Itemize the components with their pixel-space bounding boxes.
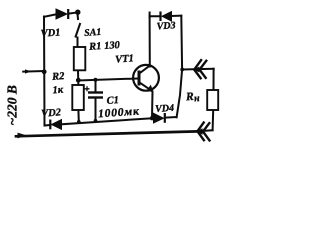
wire R1 bottom lead [77, 70, 79, 79]
svg-text:SA1: SA1 [84, 27, 102, 39]
wire base horizontal [78, 79, 137, 81]
wire lower output short [203, 129, 213, 132]
wire Rn top lead [213, 69, 215, 90]
wire internal bottom rail right (junction to VD4) [152, 117, 154, 119]
diode VD4 [154, 113, 165, 123]
resistor R1 [74, 47, 86, 70]
transistor VT1 [133, 65, 159, 92]
wire upper input arrow shaft [23, 70, 44, 73]
wire right vertical (VD3 right down to VD4 corner) [177, 16, 183, 118]
svg-text:1000мк: 1000мк [98, 105, 141, 120]
resistor Rn [207, 90, 218, 110]
lower output arrowhead [196, 128, 202, 134]
wire emitter vertical [151, 92, 154, 119]
resistor R2 [72, 85, 84, 110]
diode VD3 [161, 12, 172, 22]
lower output connector chevrons [197, 122, 210, 142]
svg-text:Rн: Rн [185, 90, 201, 105]
wire internal bottom rail left (corner to VD2) [45, 124, 51, 127]
junction node A (base/R1/R2) [76, 78, 81, 83]
upper input arrow [25, 69, 32, 73]
junction node C1 bottom [94, 119, 98, 123]
diode VD1 [56, 9, 68, 19]
svg-text:R1: R1 [88, 41, 102, 53]
junction node R2 bottom [77, 120, 81, 124]
wire long bottom line [16, 131, 197, 136]
upper output connector chevrons [194, 59, 207, 79]
svg-text:VD1: VD1 [40, 27, 61, 39]
wire top-right rail left part [150, 13, 160, 17]
svg-text:C1: C1 [106, 95, 119, 107]
wire collector vertical [149, 16, 151, 66]
svg-text:VT1: VT1 [115, 53, 134, 65]
wire switch stem [77, 14, 80, 19]
wire left vertical rail [43, 17, 46, 126]
svg-text:R2: R2 [51, 71, 66, 83]
wire C1 top lead [95, 80, 97, 92]
diode VD2 [50, 120, 61, 130]
switch SA1 [75, 10, 80, 38]
svg-text:1к: 1к [52, 85, 64, 97]
capacitor C1 [85, 86, 104, 97]
wire R1 top lead [77, 38, 79, 48]
junction node upper output tap [180, 68, 184, 72]
svg-text:~220 В: ~220 В [5, 85, 20, 125]
junction node emitter-rail [150, 116, 154, 120]
junction node input-rail [42, 69, 47, 74]
svg-text:130: 130 [104, 40, 121, 52]
wire top-right rail right part [172, 15, 182, 17]
junction node C1 top [93, 78, 97, 82]
wire VD1 to switch dot [70, 12, 76, 15]
wire internal bottom rail mid (VD2 to emitter junction) [62, 118, 152, 124]
lower input arrow [18, 133, 27, 139]
wire C1 bottom lead [95, 99, 97, 121]
upper output arrowhead [193, 67, 199, 73]
wire VD4 to right corner [166, 116, 177, 119]
wire upper output [182, 68, 214, 71]
wire top-left rail [44, 14, 56, 16]
wire R2 bottom lead [77, 110, 79, 122]
svg-text:VD2: VD2 [41, 107, 62, 119]
wire R2 top lead [77, 81, 79, 85]
svg-text:VD3: VD3 [156, 20, 176, 32]
wire Rn bottom lead [212, 110, 215, 130]
svg-text:VD4: VD4 [155, 103, 175, 115]
